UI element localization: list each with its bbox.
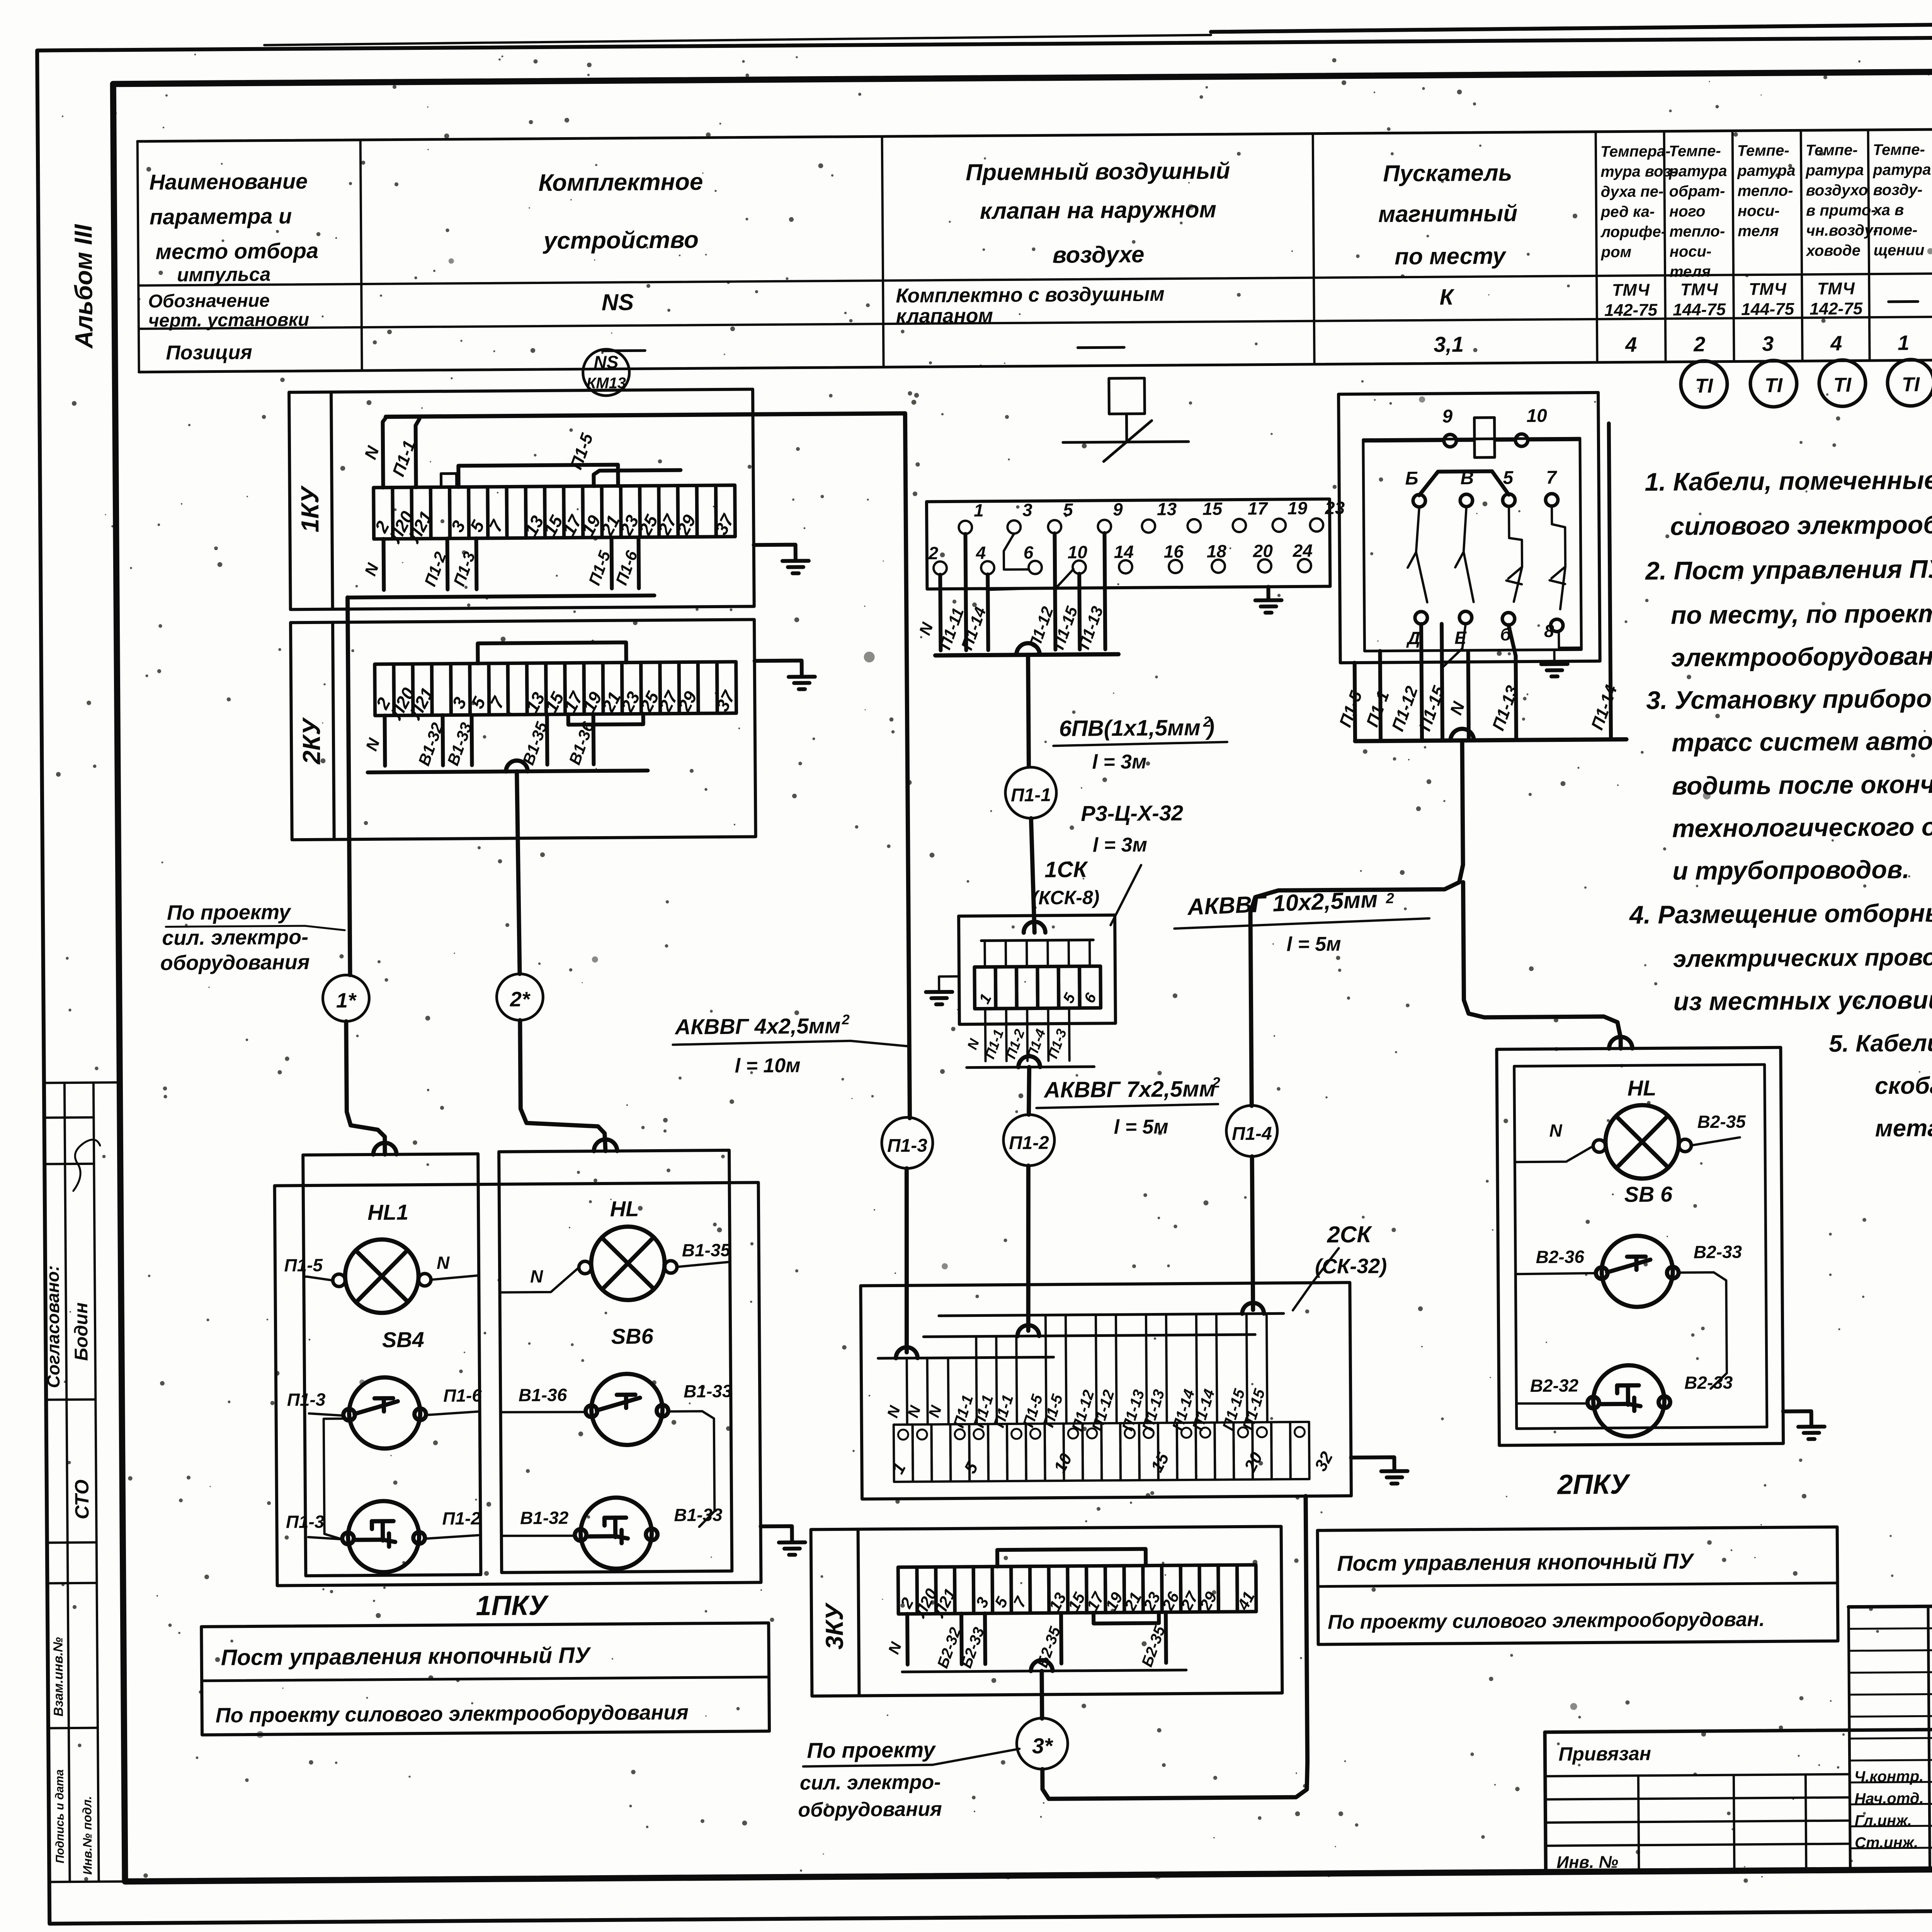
wire P1-1 to 1KU bbox=[415, 419, 420, 487]
3KU strip bbox=[898, 1567, 917, 1614]
svg-text:металлорукаве: металлорукаве bbox=[1875, 1114, 1932, 1142]
svg-text:5: 5 bbox=[1503, 468, 1514, 488]
magnetic starter outer box bbox=[1338, 393, 1600, 663]
cable marker circle 2* bbox=[497, 974, 543, 1020]
svg-text:NS: NS bbox=[594, 352, 619, 372]
starter wire P1-1 bbox=[1380, 651, 1381, 741]
svg-text:из местных условий.: из местных условий. bbox=[1673, 985, 1932, 1016]
svg-text:теля: теля bbox=[1738, 223, 1779, 240]
cable marker circle P1-3 bbox=[882, 1117, 933, 1168]
text box post upravleniya right bbox=[1318, 1527, 1838, 1645]
svg-text:поме-: поме- bbox=[1873, 221, 1917, 239]
1SK ground bbox=[939, 976, 959, 992]
cable marker circle 3* bbox=[1017, 1718, 1068, 1769]
svg-text:и трубопроводов.: и трубопроводов. bbox=[1672, 855, 1910, 885]
stamp signature bbox=[73, 1139, 100, 1191]
svg-text:Инв. №: Инв. № bbox=[1556, 1853, 1618, 1872]
svg-text:ТI: ТI bbox=[1833, 374, 1852, 396]
cable wire from 1KU to P1-3 run bbox=[386, 413, 910, 1122]
svg-text:ТМЧ: ТМЧ bbox=[1817, 279, 1855, 298]
svg-text:6: 6 bbox=[1024, 543, 1034, 563]
starter wire P1-14 bbox=[1609, 423, 1611, 740]
svg-text:1. Кабели, помеченные * см. п: 1. Кабели, помеченные * см. проект bbox=[1645, 464, 1932, 496]
button lower left maintained bbox=[348, 1501, 419, 1572]
magnetic starter inner box bbox=[1363, 438, 1582, 651]
dash bbox=[1078, 346, 1124, 349]
svg-text:воздухе: воздухе bbox=[1053, 241, 1145, 268]
button SB4 bbox=[349, 1377, 420, 1449]
svg-text:водить после окончания монт: водить после окончания монтажа bbox=[1672, 769, 1932, 800]
svg-text:1ПКУ: 1ПКУ bbox=[476, 1590, 549, 1621]
svg-text:носи-: носи- bbox=[1670, 243, 1712, 260]
bump into 1SK bbox=[1024, 922, 1045, 932]
svg-text:Приемный воздушный: Приемный воздушный bbox=[966, 158, 1230, 185]
svg-text:По проекту силового электрообо: По проекту силового электрооборудования bbox=[216, 1701, 689, 1727]
svg-text:ТМЧ: ТМЧ bbox=[1612, 281, 1650, 300]
svg-text:возду-: возду- bbox=[1873, 181, 1923, 199]
svg-text:ТМЧ: ТМЧ bbox=[1680, 280, 1718, 299]
scan top edge line bbox=[264, 35, 1211, 45]
svg-text:Пускатель: Пускатель bbox=[1383, 160, 1512, 186]
2KU lower wires bbox=[383, 716, 387, 766]
svg-text:144-75: 144-75 bbox=[1741, 299, 1794, 319]
pushbutton post 1PKU outline bbox=[275, 1182, 761, 1585]
svg-text:В2-33: В2-33 bbox=[1684, 1372, 1733, 1393]
svg-text:воздухо: воздухо bbox=[1806, 182, 1868, 199]
svg-text:2*: 2* bbox=[510, 988, 531, 1011]
3KU lower bus bbox=[902, 1670, 1186, 1672]
2SK top bus 1 bbox=[939, 1313, 1284, 1316]
wire circle 3 down right and up bbox=[1041, 1496, 1308, 1799]
contact box ground bbox=[1266, 587, 1270, 600]
2PKU ground bbox=[1783, 1411, 1811, 1427]
svg-text:По проекту: По проекту bbox=[807, 1737, 936, 1762]
2KU terminal strip bbox=[375, 664, 394, 716]
svg-text:SВ 6: SВ 6 bbox=[1624, 1182, 1673, 1207]
svg-text:В1-35: В1-35 bbox=[682, 1240, 731, 1260]
svg-text:142-75: 142-75 bbox=[1810, 299, 1863, 318]
svg-text:N: N bbox=[530, 1266, 543, 1286]
svg-text:Комплектное: Комплектное bbox=[538, 168, 703, 196]
wire N to 1KU bbox=[383, 417, 387, 488]
svg-text:2ПКУ: 2ПКУ bbox=[1556, 1469, 1631, 1500]
junction box 1SK outline bbox=[959, 915, 1116, 1024]
svg-text:23: 23 bbox=[1325, 498, 1345, 518]
svg-text:тепло-: тепло- bbox=[1738, 182, 1793, 199]
svg-text:АКВВГ 7х2,5мм: АКВВГ 7х2,5мм bbox=[1043, 1076, 1216, 1102]
svg-text:П1-4: П1-4 bbox=[1232, 1123, 1272, 1144]
2SK strip terminal dots bbox=[898, 1430, 908, 1440]
cable marker circle P1-4 bbox=[1226, 1105, 1277, 1156]
wire from circle 2 to 1PKU bbox=[520, 1020, 605, 1151]
svg-text:ром: ром bbox=[1601, 243, 1632, 261]
svg-text:В1-33: В1-33 bbox=[684, 1381, 732, 1401]
svg-text:20: 20 bbox=[1253, 541, 1273, 561]
svg-text:NS: NS bbox=[602, 289, 634, 315]
dash bbox=[602, 349, 645, 352]
svg-text:место отбора: место отбора bbox=[155, 238, 318, 264]
terminal box 2KU outline bbox=[291, 619, 756, 840]
1PKU right cell bbox=[499, 1150, 732, 1573]
svg-text:оборудования: оборудования bbox=[798, 1798, 942, 1821]
svg-text:по месту: по месту bbox=[1395, 243, 1507, 269]
svg-text:HL: HL bbox=[1628, 1076, 1656, 1100]
cable marker circle 1* bbox=[323, 975, 369, 1022]
svg-text:импульса: импульса bbox=[177, 264, 271, 286]
1PKU left internal wires bbox=[304, 1276, 307, 1278]
button lower 2PKU maintained bbox=[1593, 1365, 1665, 1437]
svg-text:чн.возду-: чн.возду- bbox=[1806, 222, 1878, 239]
svg-text:3. Установку приборов и про: 3. Установку приборов и прокладку bbox=[1646, 683, 1932, 714]
bump under 3KU bbox=[1031, 1660, 1053, 1671]
svg-text:П1-1: П1-1 bbox=[1011, 785, 1051, 806]
1KU lower wires bbox=[382, 539, 386, 590]
svg-text:по месту, по проекту силовог: по месту, по проекту силового bbox=[1671, 598, 1932, 629]
svg-text:ха в: ха в bbox=[1872, 202, 1904, 219]
svg-text:Темпе-: Темпе- bbox=[1669, 143, 1721, 160]
svg-text:4: 4 bbox=[1625, 333, 1637, 356]
contact box internal wires bbox=[1003, 534, 1029, 570]
lamp HL 2PKU bbox=[1605, 1105, 1679, 1179]
svg-text:Взам.инв.№: Взам.инв.№ bbox=[51, 1637, 66, 1717]
svg-text:Бодин: Бодин bbox=[71, 1302, 92, 1361]
svg-text:15: 15 bbox=[1202, 498, 1223, 519]
svg-text:l = 10м: l = 10м bbox=[735, 1054, 800, 1077]
junction bump on 2KU bus bbox=[506, 760, 527, 771]
svg-text:1*: 1* bbox=[336, 989, 357, 1012]
wire P1-3 to 2SK bbox=[905, 1168, 908, 1352]
3KU lower wires bbox=[905, 1614, 910, 1665]
svg-text:l = 5м: l = 5м bbox=[1286, 933, 1341, 956]
1KU ground stub bbox=[754, 545, 796, 561]
svg-text:SB6: SB6 bbox=[611, 1324, 654, 1349]
svg-text:3: 3 bbox=[1022, 500, 1032, 520]
starter coil wires bbox=[1363, 440, 1444, 441]
bump into 1PKU right bbox=[594, 1139, 617, 1151]
svg-text:обрат-: обрат- bbox=[1669, 183, 1725, 200]
svg-text:В1-36: В1-36 bbox=[519, 1385, 567, 1405]
svg-text:Альбом III: Альбом III bbox=[69, 224, 98, 349]
bump under 1SK bbox=[1018, 1056, 1040, 1067]
svg-text:Пост управления кнопочный ПУ: Пост управления кнопочный ПУ bbox=[221, 1643, 592, 1670]
starter wire P1-15 bbox=[1442, 624, 1442, 741]
starter coil bbox=[1475, 418, 1495, 457]
svg-text:HL1: HL1 bbox=[367, 1200, 408, 1225]
1SK top bus bbox=[981, 940, 1093, 941]
contact box lower bus bbox=[935, 654, 1119, 655]
svg-text:24: 24 bbox=[1293, 541, 1313, 561]
pushbutton post 2PKU inner bbox=[1514, 1065, 1767, 1429]
2KU lower jumper bbox=[568, 714, 643, 724]
starter contacts B V 5 7 bbox=[1413, 495, 1425, 507]
svg-text:Согласовано:: Согласовано: bbox=[43, 1265, 63, 1388]
wire bus bump to P1-1 bbox=[1028, 655, 1029, 767]
button lower right maintained bbox=[580, 1497, 652, 1569]
svg-text:10: 10 bbox=[1068, 542, 1088, 562]
wire 3KU to circle 3 bbox=[1040, 1671, 1044, 1718]
svg-text:16: 16 bbox=[1164, 541, 1184, 561]
svg-text:тура воз-: тура воз- bbox=[1600, 163, 1676, 180]
svg-text:Б: Б bbox=[1405, 468, 1418, 489]
svg-text:клапаном: клапаном bbox=[896, 304, 993, 328]
svg-text:Наименование: Наименование bbox=[149, 169, 308, 194]
cable marker circle P1-2 bbox=[1003, 1114, 1054, 1166]
svg-text:Темпера-: Темпера- bbox=[1600, 143, 1671, 160]
bump into 1PKU left bbox=[373, 1143, 396, 1155]
starter terminal 9 bbox=[1444, 434, 1456, 447]
1SK lower bus bbox=[967, 1067, 1094, 1068]
svg-text:Подпись и дата: Подпись и дата bbox=[53, 1769, 67, 1863]
svg-text:Гл.инж.: Гл.инж. bbox=[1854, 1812, 1912, 1830]
svg-text:8: 8 bbox=[1544, 621, 1554, 641]
starter wire P1-12 bbox=[1421, 624, 1422, 741]
svg-text:технологического оборудования: технологического оборудования bbox=[1672, 811, 1932, 842]
1SK bus-to-cell wires bbox=[983, 940, 986, 967]
svg-text:2: 2 bbox=[842, 1012, 850, 1027]
3KU lower jumper bbox=[1094, 1612, 1159, 1623]
svg-text:П1-2: П1-2 bbox=[1009, 1133, 1049, 1153]
svg-text:4. Размещение отборных устр: 4. Размещение отборных устройств приборо… bbox=[1629, 896, 1932, 929]
svg-text:(КСК-8): (КСК-8) bbox=[1032, 886, 1100, 908]
svg-text:10: 10 bbox=[1526, 406, 1547, 426]
svg-text:Комплектно с воздушным: Комплектно с воздушным bbox=[896, 283, 1165, 307]
2SK ground bbox=[1351, 1457, 1394, 1471]
bump under contact box bbox=[1016, 643, 1039, 655]
wire P1-4 to 2SK bbox=[1252, 1156, 1253, 1310]
1KU jumper bracket bbox=[458, 465, 618, 487]
svg-text:3КУ: 3КУ bbox=[820, 1602, 849, 1650]
svg-text:4: 4 bbox=[976, 543, 986, 563]
svg-text:сил. электро-: сил. электро- bbox=[162, 925, 308, 950]
starter switch blades bbox=[1416, 507, 1427, 602]
contact box outgoing wires bbox=[940, 575, 940, 650]
svg-text:ТI: ТI bbox=[1765, 374, 1783, 397]
2KU divider bbox=[333, 622, 334, 840]
temp column 5 value bbox=[1889, 300, 1918, 303]
svg-text:ТI: ТI bbox=[1902, 373, 1920, 396]
svg-text:электрооборудования.: электрооборудования. bbox=[1671, 641, 1932, 672]
svg-text:В1-32: В1-32 bbox=[520, 1508, 569, 1528]
svg-text:5. Кабели проложить по стена: 5. Кабели проложить по стенам открыто с … bbox=[1829, 1026, 1932, 1057]
2SK strip bbox=[894, 1425, 913, 1482]
svg-text:П1-6: П1-6 bbox=[443, 1385, 482, 1406]
svg-text:13: 13 bbox=[1157, 499, 1177, 519]
spec table grid bbox=[138, 129, 1932, 141]
svg-text:1: 1 bbox=[1898, 331, 1909, 354]
svg-text:ТI: ТI bbox=[1695, 375, 1714, 397]
svg-text:ратура: ратура bbox=[1805, 162, 1864, 179]
svg-text:оборудования: оборудования bbox=[160, 951, 310, 975]
svg-text:144-75: 144-75 bbox=[1673, 300, 1726, 320]
svg-text:2: 2 bbox=[1212, 1075, 1220, 1091]
svg-text:142-75: 142-75 bbox=[1604, 301, 1658, 320]
svg-text:В2-36: В2-36 bbox=[1536, 1247, 1584, 1267]
svg-text:Инв.№ подл.: Инв.№ подл. bbox=[80, 1796, 94, 1875]
starter contacts D E b 8 bbox=[1415, 612, 1427, 624]
svg-text:теля: теля bbox=[1670, 263, 1711, 281]
svg-text:l = 3м: l = 3м bbox=[1092, 751, 1146, 774]
scan smudge blobs bbox=[864, 651, 875, 662]
svg-text:электрических проводок уточн: электрических проводок уточнить при монт… bbox=[1673, 941, 1932, 972]
svg-text:ратура: ратура bbox=[1872, 161, 1931, 179]
TI instrument circles bbox=[1681, 361, 1728, 408]
terminal box 1KU outline bbox=[289, 389, 754, 609]
svg-text:в прито-: в прито- bbox=[1806, 202, 1876, 219]
cable marker circle NS KM13 bbox=[583, 349, 629, 396]
svg-text:2. Пост управления ПУ устанавл: 2. Пост управления ПУ устанавливается bbox=[1645, 553, 1932, 585]
svg-text:Р3-Ц-Х-32: Р3-Ц-Х-32 bbox=[1081, 801, 1183, 826]
svg-text:2КУ: 2КУ bbox=[298, 717, 326, 765]
svg-text:18: 18 bbox=[1207, 541, 1227, 561]
title block outline bbox=[1545, 1725, 1932, 1732]
svg-text:ТМЧ: ТМЧ bbox=[1749, 280, 1787, 299]
svg-text:SB4: SB4 bbox=[382, 1327, 424, 1352]
svg-text:3: 3 bbox=[1762, 332, 1774, 355]
svg-text:2: 2 bbox=[928, 543, 939, 563]
wire from circle 1 to 1PKU bbox=[346, 1021, 385, 1155]
svg-text:3,1: 3,1 bbox=[1434, 332, 1464, 357]
svg-text:По проекту силового электрообо: По проекту силового электрооборудован. bbox=[1328, 1608, 1765, 1634]
starter wire N bbox=[1468, 652, 1469, 740]
svg-text:В2-35: В2-35 bbox=[1697, 1111, 1746, 1132]
bump P1-3 into 2SK bbox=[896, 1347, 917, 1358]
svg-text:2СК: 2СК bbox=[1327, 1221, 1372, 1248]
svg-text:ратура: ратура bbox=[1737, 162, 1795, 179]
svg-text:Темпе-: Темпе- bbox=[1873, 141, 1925, 158]
svg-text:ратура: ратура bbox=[1668, 163, 1727, 180]
2SK top bus 3 bbox=[878, 1357, 1054, 1358]
lamp HL bbox=[591, 1226, 665, 1300]
svg-text:П1-3: П1-3 bbox=[887, 1135, 928, 1156]
1PKU left cell bbox=[303, 1154, 481, 1576]
svg-text:П1-2: П1-2 bbox=[442, 1508, 481, 1529]
wire P1-2 to 2SK bbox=[1027, 1166, 1029, 1331]
svg-text:носи-: носи- bbox=[1738, 202, 1780, 220]
1SK lower wires bbox=[984, 1009, 987, 1061]
svg-text:тепло-: тепло- bbox=[1669, 223, 1725, 240]
svg-text:трасс систем автоматизации п: трасс систем автоматизации произ- bbox=[1672, 725, 1932, 757]
svg-text:Ч.контр.: Ч.контр. bbox=[1854, 1768, 1924, 1785]
2SK top bus 2 bbox=[923, 1335, 1255, 1337]
svg-text:скобами по технологическому: скобами по технологическому оборудованию… bbox=[1875, 1069, 1932, 1099]
svg-text:9: 9 bbox=[1442, 406, 1452, 427]
button SB6 2PKU bbox=[1602, 1236, 1673, 1307]
svg-text:АКВВГ 4х2,5мм: АКВВГ 4х2,5мм bbox=[674, 1014, 841, 1039]
svg-text:ного: ного bbox=[1669, 203, 1706, 220]
wire 1SK to P1-2 bbox=[1029, 1067, 1030, 1115]
2SK drop wires and labels bbox=[907, 1358, 907, 1425]
svg-text:П1-5: П1-5 bbox=[284, 1255, 323, 1276]
svg-text:ховоде: ховоде bbox=[1806, 242, 1861, 259]
svg-text:В2-33: В2-33 bbox=[1694, 1242, 1742, 1262]
svg-text:Нач.отд.: Нач.отд. bbox=[1854, 1790, 1924, 1807]
svg-text:устройство: устройство bbox=[543, 226, 699, 254]
svg-text:1: 1 bbox=[974, 500, 984, 520]
title block signature grid bbox=[1849, 1607, 1850, 1870]
starter bridge B to 5 bbox=[1419, 471, 1509, 495]
stamp column grid bbox=[65, 1083, 70, 1882]
svg-text:Привязан: Привязан bbox=[1558, 1743, 1651, 1765]
svg-text:Пост управления кнопочный ПУ: Пост управления кнопочный ПУ bbox=[1337, 1549, 1695, 1575]
junction box 2SK outline bbox=[861, 1282, 1351, 1499]
bump into 2PKU bbox=[1609, 1037, 1632, 1048]
svg-text:Позиция: Позиция bbox=[166, 341, 252, 364]
svg-text:В2-32: В2-32 bbox=[1530, 1375, 1579, 1396]
svg-text:1КУ: 1КУ bbox=[296, 485, 324, 532]
text box post upravleniya left bbox=[201, 1623, 769, 1735]
svg-text:2: 2 bbox=[1386, 890, 1394, 906]
svg-text:щении: щении bbox=[1874, 241, 1925, 259]
svg-text:П1-3: П1-3 bbox=[287, 1389, 326, 1410]
starter ground bbox=[1553, 650, 1556, 664]
svg-text:П1-3: П1-3 bbox=[286, 1512, 325, 1532]
svg-text:Темпе-: Темпе- bbox=[1806, 141, 1858, 159]
svg-text:параметра и: параметра и bbox=[150, 204, 292, 229]
svg-text:6ПВ(1х1,5мм: 6ПВ(1х1,5мм bbox=[1059, 715, 1201, 741]
bump P1-2 into 2SK bbox=[1017, 1325, 1039, 1336]
svg-text:14: 14 bbox=[1114, 542, 1134, 562]
3KU jumper bracket bbox=[997, 1549, 1146, 1567]
svg-text:ред ка-: ред ка- bbox=[1600, 203, 1655, 221]
wire starter to 2PKU bbox=[1463, 881, 1621, 1050]
wire P1-4 vertical from starter bbox=[1249, 740, 1464, 1106]
svg-text:магнитный: магнитный bbox=[1378, 200, 1518, 227]
svg-text:Ст.инж.: Ст.инж. bbox=[1855, 1834, 1918, 1851]
svg-text:9: 9 bbox=[1113, 499, 1123, 519]
contact box top terminals bbox=[959, 521, 972, 534]
3KU divider bbox=[858, 1529, 859, 1696]
lamp HL1 bbox=[345, 1239, 419, 1313]
starter terminal 10 bbox=[1515, 434, 1528, 446]
svg-text:l = 3м: l = 3м bbox=[1093, 834, 1147, 857]
wire P1-5 horizontal inside 1KU bbox=[594, 470, 680, 486]
svg-text:Обозначение: Обозначение bbox=[148, 291, 270, 312]
svg-text:Темпе-: Темпе- bbox=[1737, 142, 1789, 160]
svg-text:5: 5 bbox=[1063, 500, 1073, 520]
local indicator symbol bbox=[1109, 378, 1145, 414]
bump P1-4 into 2SK bbox=[1242, 1303, 1264, 1314]
svg-text:3*: 3* bbox=[1032, 1733, 1054, 1758]
svg-text:7: 7 bbox=[1546, 468, 1557, 488]
svg-text:СТО: СТО bbox=[71, 1480, 93, 1519]
1SK strip bbox=[975, 967, 996, 1009]
svg-text:духа пе-: духа пе- bbox=[1601, 183, 1664, 201]
contact box bottom terminals bbox=[934, 561, 947, 575]
button SB6 right bbox=[591, 1374, 663, 1445]
1KU lower bus bbox=[348, 595, 655, 597]
svg-text:Д: Д bbox=[1406, 628, 1420, 648]
svg-text:HL: HL bbox=[610, 1196, 639, 1221]
bump under starter bbox=[1451, 729, 1474, 740]
wire from 2KU to circle 2 bbox=[517, 771, 520, 974]
svg-text:2: 2 bbox=[1693, 333, 1705, 356]
starter wire P1-13 bbox=[1509, 625, 1516, 740]
svg-text:клапан на наружном: клапан на наружном bbox=[980, 196, 1217, 224]
svg-text:l = 5м: l = 5м bbox=[1114, 1116, 1168, 1138]
contact box outline bbox=[927, 499, 1330, 589]
svg-text:черт. установки: черт. установки bbox=[148, 310, 310, 331]
svg-text:лорифе-: лорифе- bbox=[1600, 223, 1666, 241]
wire P1-1 to 1SK bbox=[1031, 818, 1034, 933]
pushbutton post 2PKU outer bbox=[1497, 1048, 1783, 1446]
1KU terminal strip bbox=[374, 488, 393, 539]
svg-text:По проекту: По проекту bbox=[167, 900, 292, 924]
1KU divider bbox=[331, 392, 333, 609]
svg-text:К: К bbox=[1439, 284, 1454, 310]
svg-text:В1-33: В1-33 bbox=[674, 1505, 723, 1525]
svg-text:сил. электро-: сил. электро- bbox=[800, 1771, 941, 1794]
svg-text:N: N bbox=[1549, 1120, 1562, 1140]
